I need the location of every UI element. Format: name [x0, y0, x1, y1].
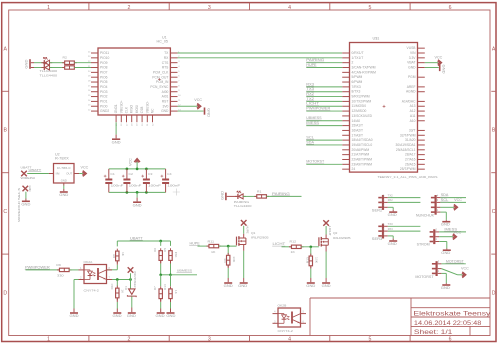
svg-text:24: 24 — [88, 51, 91, 53]
wire R8 bottom to OK2A collector — [107, 261, 118, 270]
svg-text:TX2: TX2 — [388, 193, 394, 197]
svg-text:PIO7: PIO7 — [100, 70, 108, 74]
Teensy pin VUSB — [407, 46, 425, 50]
svg-text:23: 23 — [88, 56, 91, 58]
U1 pin 1 TX — [164, 51, 180, 55]
junction top rail VCC — [136, 168, 139, 171]
Teensy pin 3.3V — [409, 56, 425, 60]
Teensy pin A14/DAC — [402, 99, 425, 103]
svg-text:14/A0: 14/A0 — [352, 119, 361, 123]
Teensy pin AREF — [407, 85, 425, 89]
svg-text:32: 32 — [152, 123, 154, 126]
Teensy pin 16/A2/T — [342, 128, 363, 132]
resistor R2 — [62, 56, 77, 65]
U1 pin 14 PIO1 — [88, 100, 108, 104]
ground below U2 — [59, 183, 69, 197]
svg-text:STROM: STROM — [417, 243, 430, 247]
svg-text:GND: GND — [21, 203, 31, 207]
svg-text:3: 3 — [438, 259, 440, 263]
LED PAIRING TLLG4400 — [234, 191, 252, 208]
ground below R13 — [306, 266, 316, 288]
svg-text:WIREPAI: WIREPAI — [21, 176, 36, 180]
Teensy pin 15/A1/T — [342, 124, 363, 128]
svg-text:14.06.2014 22:05:48: 14.06.2014 22:05:48 — [414, 320, 482, 327]
svg-text:23/A9/T/PWM: 23/A9/T/PWM — [352, 162, 373, 166]
svg-text:13/SCK0/LED: 13/SCK0/LED — [352, 114, 373, 118]
net LICHT wire to R12 — [272, 242, 291, 247]
net UBATT rail wire — [117, 236, 170, 241]
wire GND to LED2 — [34, 67, 44, 69]
wire MOTORST pin1 to ground — [438, 269, 447, 283]
svg-text:3: 3 — [383, 222, 385, 226]
wire R9 to OK2A anode — [69, 269, 78, 271]
svg-text:9/RX2/PWM: 9/RX2/PWM — [352, 95, 370, 99]
connector MOTORST — [415, 261, 441, 279]
svg-text:C: C — [3, 209, 7, 215]
U1 pin 22 PIO9 — [88, 61, 108, 65]
Teensy pin 3/CAN-TX/PWM — [342, 66, 376, 70]
svg-text:OK2B: OK2B — [278, 303, 287, 307]
svg-text:RST: RST — [162, 100, 169, 104]
svg-text:LICHT: LICHT — [273, 242, 286, 246]
optocoupler OK2A CNY74-2 — [79, 260, 113, 293]
svg-text:PIO10: PIO10 — [100, 56, 110, 60]
svg-text:31: 31 — [147, 123, 149, 126]
wire U2 OUT to VCC — [74, 173, 79, 175]
svg-text:GND: GND — [224, 284, 234, 288]
Teensy pin 28/A17 — [405, 153, 425, 157]
svg-text:GND: GND — [59, 193, 69, 197]
svg-text:C: C — [492, 209, 496, 215]
svg-text:3V0: 3V0 — [163, 104, 169, 108]
Teensy pin 11/MOSI0 — [342, 104, 366, 108]
svg-text:2: 2 — [352, 61, 354, 65]
Teensy pin 5/PWM — [342, 75, 362, 79]
wire LED2 to R3 — [50, 67, 65, 69]
svg-text:PCN_SYNC: PCN_SYNC — [150, 85, 169, 89]
Teensy pin 24 — [342, 167, 355, 171]
connector NUNCHUK — [416, 195, 441, 218]
svg-text:GND: GND — [127, 314, 137, 318]
connector STROM — [417, 229, 440, 246]
svg-text:IMESS: IMESS — [306, 121, 319, 125]
svg-text:PIO0: PIO0 — [100, 104, 108, 108]
capacitor C3 100nF — [141, 169, 161, 193]
svg-text:IRLR2905: IRLR2905 — [251, 236, 269, 240]
ground symbol (rotated) left of status LEDs — [25, 59, 34, 69]
Teensy pin A13 — [410, 104, 425, 108]
wire R11 to Q1 gate — [219, 245, 237, 247]
svg-text:25/T/PWM: 25/T/PWM — [400, 167, 416, 171]
svg-text:R11: R11 — [208, 239, 215, 243]
svg-text:PIO3: PIO3 — [100, 90, 108, 94]
wire gate junction down to R13 — [310, 247, 312, 255]
svg-text:GND: GND — [388, 242, 398, 246]
svg-text:VCC: VCC — [194, 98, 202, 102]
zener diode D1 — [124, 280, 136, 298]
ground below NUNCHUK — [441, 220, 451, 227]
ground symbol (rotated) at pairing LED — [220, 190, 237, 200]
ground below R7 — [156, 299, 166, 318]
capacitor C4 100nF — [161, 169, 181, 193]
Teensy pin 23/A9/T/PWM — [342, 162, 372, 166]
svg-text:15: 15 — [88, 95, 91, 97]
svg-text:GND: GND — [156, 314, 166, 318]
U1 pin 13 PIO0 — [88, 104, 108, 108]
svg-text:LICHT: LICHT — [328, 226, 332, 236]
U1 bottom pin VBUSD- — [145, 101, 149, 126]
net IMESS wire at STROM — [436, 227, 466, 232]
svg-text:VCC: VCC — [454, 230, 462, 234]
svg-text:RX: RX — [164, 56, 169, 60]
resistor R9 330 — [56, 263, 71, 278]
junction bottom rail GND — [136, 191, 139, 194]
svg-text:R5: R5 — [163, 247, 167, 251]
svg-text:27/A16: 27/A16 — [405, 157, 416, 161]
net RX3 wire at SER3 — [383, 227, 421, 231]
svg-text:R8: R8 — [112, 254, 116, 258]
svg-text:R10: R10 — [110, 283, 114, 289]
resistor R8 1K pullup — [112, 241, 125, 263]
svg-text:R12: R12 — [290, 240, 297, 244]
frame column numbers top — [47, 5, 452, 11]
net IMESS wire to Teensy — [306, 121, 342, 126]
junction UBATT rail divider column 1 — [159, 240, 162, 243]
svg-text:GND2: GND2 — [100, 109, 109, 113]
svg-text:R13: R13 — [305, 257, 309, 264]
svg-text:32/T/PWM: 32/T/PWM — [400, 133, 416, 137]
svg-text:1K: 1K — [291, 250, 295, 254]
svg-text:GND: GND — [306, 284, 316, 288]
VCC arrow at NUNCHUK pin2 — [440, 198, 462, 210]
svg-text:PIO4: PIO4 — [100, 85, 108, 89]
svg-text:1K: 1K — [121, 289, 125, 293]
net RX2 wire to Teensy — [306, 92, 342, 97]
svg-text:GND: GND — [220, 190, 224, 200]
svg-text:10: 10 — [178, 95, 181, 97]
Teensy pin 18/A4/T/SDA0 — [342, 138, 373, 142]
wire LED1 to R2 — [50, 62, 65, 64]
U1 bottom pin MOSI — [135, 105, 139, 126]
junction bottom rail C2 — [126, 191, 129, 194]
svg-text:TLLG4400: TLLG4400 — [40, 73, 58, 77]
svg-text:31/A20: 31/A20 — [405, 138, 416, 142]
svg-text:29: 29 — [137, 123, 139, 126]
resistor R5 15K — [163, 247, 178, 263]
resistor R1 — [254, 190, 269, 199]
svg-text:3: 3 — [383, 193, 385, 197]
svg-text:MOSI: MOSI — [135, 105, 139, 113]
ground below SER2 — [388, 210, 398, 217]
svg-text:29/A18/SCL1: 29/A18/SCL1 — [396, 148, 416, 152]
U1 bottom pin GND1 — [114, 104, 118, 126]
Teensy pin 19/A5/T/SCL0 — [342, 143, 372, 147]
ground symbol (rotated) at U1 GND pin — [178, 107, 211, 117]
svg-text:4: 4 — [288, 337, 291, 343]
svg-text:2: 2 — [128, 337, 131, 343]
net TX3 wire to Teensy — [306, 87, 342, 92]
title block — [310, 298, 490, 336]
svg-text:PIO5: PIO5 — [100, 80, 108, 84]
svg-text:0/RX1/T: 0/RX1/T — [352, 51, 364, 55]
net PWMPOWER wire to R9 — [25, 265, 60, 270]
net MOTORST wire to Teensy — [306, 160, 342, 165]
wire PWMPOWER pad to emitter row — [130, 273, 132, 279]
svg-text:PWMPOWER: PWMPOWER — [306, 106, 330, 110]
resistor R4 10K pulldown — [223, 253, 236, 268]
ground below Q2 source — [322, 252, 332, 289]
svg-text:1/TX1/T: 1/TX1/T — [352, 56, 364, 60]
svg-text:21/A7/PWM: 21/A7/PWM — [352, 153, 370, 157]
svg-text:MISO: MISO — [130, 105, 134, 114]
svg-text:19: 19 — [88, 76, 91, 78]
svg-text:PCM_IN: PCM_IN — [156, 80, 169, 84]
U1 pin 7 PCM_IN — [156, 80, 180, 84]
net SCL wire at NUNCHUK — [437, 198, 466, 202]
U1 pin 4 RTS — [162, 66, 180, 70]
net TX2 wire to Teensy — [306, 97, 342, 102]
svg-text:GND: GND — [206, 108, 210, 118]
Teensy pin 10/TX2/PWM — [342, 99, 371, 103]
net UBMESS wire to Teensy — [306, 116, 342, 121]
wirepad PWMPOWER output — [128, 267, 137, 287]
svg-text:PIO9: PIO9 — [100, 61, 108, 65]
wirepad HUPE output — [241, 220, 250, 234]
svg-text:A14/DAC: A14/DAC — [402, 99, 416, 103]
net MOTORST wire — [438, 259, 466, 264]
svg-text:R9: R9 — [56, 263, 61, 267]
Teensy pin 30/A19/SDA1 — [396, 143, 425, 147]
svg-text:6/PWM: 6/PWM — [352, 80, 363, 84]
U1 pin 21 PIO8 — [88, 66, 108, 70]
svg-text:4: 4 — [178, 66, 180, 68]
svg-text:HUPE: HUPE — [306, 63, 317, 67]
ground below SER3 — [388, 239, 398, 246]
wire gate junction down to R4 — [227, 246, 229, 254]
svg-text:VBAT: VBAT — [407, 61, 415, 65]
svg-text:R14: R14 — [163, 284, 167, 290]
title block text: project name — [413, 310, 491, 317]
svg-text:8/TX3: 8/TX3 — [352, 90, 361, 94]
svg-text:20/A6/PWM: 20/A6/PWM — [352, 148, 370, 152]
wire GND to LED1 — [34, 62, 44, 64]
svg-text:1: 1 — [436, 237, 438, 241]
svg-text:PIO2: PIO2 — [100, 95, 108, 99]
svg-text:GND: GND — [441, 223, 451, 227]
voltage regulator U2 R-78XX body — [54, 153, 75, 183]
Teensy pin 1/TX1/T — [342, 56, 363, 60]
net SCL wire to Teensy — [306, 136, 342, 141]
junction emitter row R10 — [116, 278, 119, 281]
Teensy pin GND — [408, 66, 425, 70]
svg-text:3: 3 — [437, 198, 439, 202]
U1 pin 13 GND — [161, 109, 181, 113]
svg-text:11/MOSI0: 11/MOSI0 — [352, 104, 367, 108]
origin cross near C4 — [173, 189, 180, 196]
svg-text:3: 3 — [208, 337, 211, 343]
svg-text:CSB: CSB — [140, 107, 144, 114]
resistor R6 15K — [153, 247, 162, 263]
Teensy pin 14/A0 — [342, 119, 360, 123]
VCC arrow at U2 output — [79, 165, 89, 176]
ground below R10 — [113, 298, 123, 318]
Teensy pin 21/A7/PWM — [342, 153, 369, 157]
svg-text:NUNCHUK: NUNCHUK — [416, 214, 435, 218]
Teensy pin 4/CAN-RX/PWM — [342, 70, 376, 74]
svg-text:A10: A10 — [410, 119, 416, 123]
svg-text:2: 2 — [383, 198, 385, 202]
wire SER3 pin1 to ground — [383, 232, 394, 239]
svg-text:SCL: SCL — [306, 136, 314, 140]
Teensy pin 12/MISO0 — [342, 109, 366, 113]
U1 pin 17 PIO4 — [88, 85, 108, 89]
svg-text:PWMPOWER: PWMPOWER — [25, 265, 50, 269]
net RX2 wire at SER2 — [383, 198, 421, 202]
svg-text:4: 4 — [288, 5, 291, 11]
Teensy pin 29/A18/SCL1 — [396, 148, 425, 152]
svg-text:1: 1 — [47, 337, 50, 343]
ground below MOTORST — [441, 283, 451, 290]
svg-text:D1: D1 — [124, 286, 128, 290]
U1 bottom pin VBUSD+ — [119, 100, 123, 126]
svg-text:TLLG4400: TLLG4400 — [40, 69, 58, 73]
svg-text:1K: 1K — [121, 252, 125, 256]
svg-text:MOTORST: MOTORST — [415, 275, 433, 279]
svg-text:10K: 10K — [232, 256, 236, 262]
Teensy pin 33/T — [409, 128, 425, 132]
svg-text:20: 20 — [88, 71, 91, 73]
svg-text:GND: GND — [238, 284, 248, 288]
Teensy pin A10 — [410, 119, 425, 123]
svg-text:LICHT: LICHT — [306, 102, 320, 106]
svg-text:12/MISO0: 12/MISO0 — [352, 109, 367, 113]
svg-text:2: 2 — [383, 227, 385, 231]
svg-text:4/CAN-RX/PWM: 4/CAN-RX/PWM — [352, 70, 377, 74]
Teensy pin AGND — [406, 90, 425, 94]
svg-text:13: 13 — [88, 105, 91, 107]
resistor R14 1K — [163, 275, 178, 301]
svg-text:27: 27 — [126, 123, 128, 126]
svg-text:PWMPOWER: PWMPOWER — [133, 272, 137, 288]
VCC arrow at MOTORST pin2 (diagonal) — [441, 267, 469, 278]
Teensy pin A11 — [410, 114, 425, 118]
svg-text:AREF: AREF — [407, 85, 416, 89]
svg-text:U$1: U$1 — [373, 37, 380, 41]
svg-text:1K: 1K — [211, 250, 215, 254]
svg-text:RX2: RX2 — [306, 92, 314, 96]
svg-text:19/A5/T/SCL0: 19/A5/T/SCL0 — [352, 143, 373, 147]
svg-text:SER2: SER2 — [372, 208, 383, 212]
svg-text:OUT: OUT — [66, 172, 72, 176]
wire STROM pin1 to ground — [436, 237, 447, 248]
svg-text:VIN: VIN — [410, 51, 416, 55]
svg-text:30: 30 — [142, 123, 144, 126]
svg-text:TX: TX — [164, 51, 169, 55]
Teensy pin 9/RX2/PWM — [342, 95, 370, 99]
junction top rail C2 — [126, 168, 129, 171]
title block text: date — [414, 320, 482, 327]
svg-text:26: 26 — [121, 123, 123, 126]
svg-text:100nF: 100nF — [167, 184, 180, 188]
svg-text:AI00: AI00 — [162, 90, 169, 94]
svg-text:HUPE: HUPE — [190, 242, 200, 246]
svg-text:17: 17 — [88, 85, 91, 87]
svg-text:UBMESS: UBMESS — [306, 116, 322, 120]
svg-text:28/A17: 28/A17 — [405, 153, 416, 157]
svg-text:OK2A: OK2A — [84, 260, 93, 264]
svg-text:MOTORST: MOTORST — [446, 259, 464, 263]
IC U1 HC_05 bluetooth module body — [98, 36, 170, 115]
junction Q1 gate / R4 — [227, 245, 230, 248]
net TX3 wire at SER3 — [383, 222, 421, 226]
LED LED1 TLLG4400 — [41, 57, 52, 65]
junction emitter row D1 — [129, 278, 132, 281]
svg-text:B: B — [492, 128, 496, 134]
svg-text:PAIRING: PAIRING — [272, 192, 291, 196]
ground below U1 GND1 pin — [112, 122, 122, 144]
frame row letters left — [3, 46, 7, 296]
ground below D1 — [127, 296, 137, 317]
transistor Q2 IRLR2905 — [319, 231, 351, 251]
net SDA wire to Teensy — [306, 140, 342, 145]
svg-text:RTS: RTS — [162, 66, 169, 70]
svg-text:26/A15: 26/A15 — [405, 162, 416, 166]
title block text: sheet — [414, 329, 453, 336]
svg-text:33/T: 33/T — [409, 128, 416, 132]
svg-text:8: 8 — [178, 85, 180, 87]
U1 pin 19 PIO6 — [88, 75, 108, 79]
svg-text:3: 3 — [208, 5, 211, 11]
wire OK2A emitter row — [112, 279, 131, 281]
svg-text:5: 5 — [368, 337, 371, 343]
U1 pin 16 PIO3 — [88, 90, 108, 94]
VCC arrow at STROM pin2 — [439, 230, 462, 239]
Teensy pin A12 — [410, 109, 425, 113]
frame row letters right — [492, 46, 496, 296]
wire HUPE pad to Q1 drain — [243, 226, 245, 234]
svg-text:1K: 1K — [174, 290, 178, 294]
wire GND pad down to ground — [25, 192, 27, 199]
frame column numbers bottom — [47, 337, 452, 343]
svg-text:WIREPAD 5&1,5: WIREPAD 5&1,5 — [17, 187, 21, 222]
svg-text:6: 6 — [449, 337, 452, 343]
svg-text:UBATT: UBATT — [29, 168, 42, 172]
Teensy pin 22/A8/T/PWM — [342, 157, 372, 161]
U1 pin 2 RX — [164, 56, 180, 60]
net PAIRING wire from R1 — [266, 192, 301, 197]
U1 bottom pin CSB — [140, 107, 144, 126]
transistor Q1 IRLR2905 — [237, 231, 270, 251]
connector SER3 — [372, 224, 388, 241]
IC U$1 Teensy 3.1 body — [350, 37, 438, 179]
svg-text:CNY74-2: CNY74-2 — [84, 289, 100, 293]
svg-text:6: 6 — [178, 76, 180, 78]
U1 pin 12 3V0 — [163, 104, 182, 108]
optocoupler OK2B CNY74-2 (unused channel) — [273, 303, 307, 333]
svg-text:C2: C2 — [129, 172, 134, 176]
junction bottom rail C3 — [145, 191, 148, 194]
Teensy pin 17/A3/T — [342, 133, 363, 137]
net PAIRING wire to Teensy — [306, 58, 342, 63]
Teensy pin PGM — [408, 75, 425, 79]
ground below R4 — [224, 265, 234, 288]
svg-text:R-78XX: R-78XX — [55, 157, 70, 161]
svg-text:10K: 10K — [314, 257, 318, 263]
svg-text:1: 1 — [383, 232, 385, 236]
svg-text:AGND: AGND — [406, 90, 416, 94]
svg-text:5: 5 — [178, 71, 180, 73]
svg-text:22/A8/T/PWM: 22/A8/T/PWM — [352, 157, 373, 161]
